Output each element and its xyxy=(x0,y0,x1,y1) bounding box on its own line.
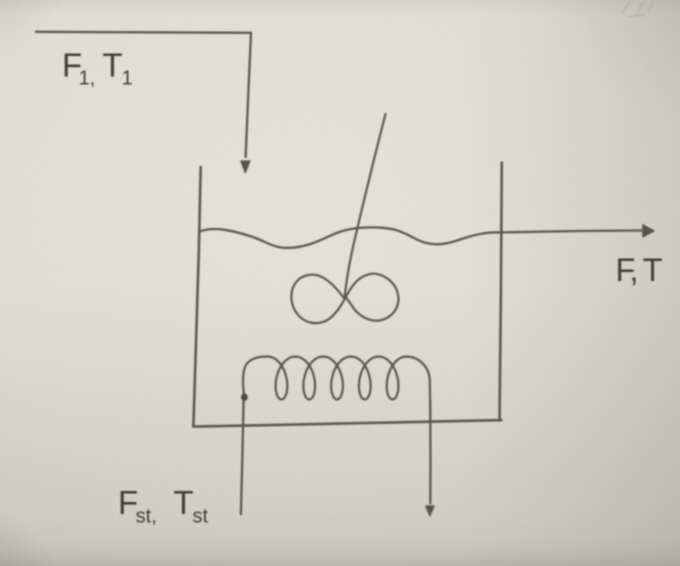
stirrer shaft xyxy=(345,114,386,296)
wire outlet xyxy=(502,231,642,233)
arrowhead inlet (down) xyxy=(241,161,250,173)
liquid surface wavy line xyxy=(199,227,501,248)
wire coil-inlet vertical xyxy=(241,400,244,514)
tank right wall xyxy=(500,163,502,421)
arrowhead outlet (right) xyxy=(643,225,654,237)
tank bottom wall xyxy=(193,420,501,427)
wire coil-outlet vertical xyxy=(429,401,432,504)
arrowhead coil inlet (up) xyxy=(241,394,248,401)
faint ghost marks top-right xyxy=(622,1,653,17)
wire inlet-top horizontal xyxy=(36,32,251,33)
wire inlet-vertical xyxy=(246,33,251,157)
tank left wall xyxy=(193,167,200,427)
impeller infinity loop xyxy=(291,274,398,323)
heating coil xyxy=(243,356,430,401)
arrowhead coil outlet (down) xyxy=(426,506,434,516)
